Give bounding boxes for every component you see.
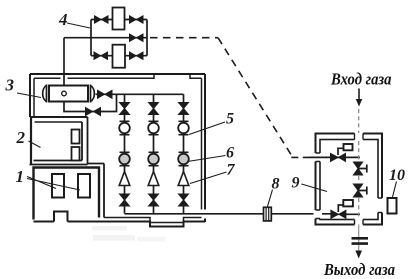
room 2 (upper-left room): top outer <box>30 116 88 118</box>
line 1: relief triangle <box>119 172 130 186</box>
valve on middle bypass line of unit 4 <box>130 34 144 41</box>
boiler rectangle 1 <box>52 174 64 198</box>
insulating joint 8 on outlet pipe <box>264 207 272 221</box>
line 2: relief triangle <box>148 172 159 186</box>
wire: middle line from vessel drop to loop <box>64 37 147 39</box>
svg-text:10: 10 <box>389 167 405 184</box>
svg-text:3: 3 <box>5 76 15 95</box>
wire: cabinet bottom-left pipe <box>331 213 360 215</box>
room 2: right wall double <box>82 117 88 165</box>
wire: cabinet top-left pipe <box>309 156 360 158</box>
valve top-right of unit 4 <box>130 16 144 23</box>
line 3: upper valve <box>179 103 189 115</box>
regulator line 3: riser <box>183 94 185 213</box>
leader line for label 3 <box>17 93 41 98</box>
leader line for label 4 <box>67 23 90 28</box>
cabinet 9: wall opening caps <box>316 134 383 225</box>
building outer wall: right inner <box>201 78 203 209</box>
filter vessel 3: right cap <box>91 85 95 103</box>
building outer wall: top outer line <box>30 73 205 75</box>
cabinet middle valve (lower) with handle <box>353 184 362 197</box>
cabinet 9: wall opening whites <box>314 132 385 227</box>
building outer wall: right outer <box>204 74 206 222</box>
valve bottom-right of unit 4 <box>130 52 144 59</box>
line 2: lower valve <box>149 194 159 206</box>
window rectangle 2 in room 2 <box>72 147 80 161</box>
cabinet bottom-left valve with actuator <box>331 210 346 218</box>
meter (top rectangle) of unit 4 <box>113 8 125 30</box>
line 2: lower flanged device (grey circle) <box>149 152 159 165</box>
line 1: lower valve <box>120 194 130 206</box>
line 1: upper flanged device (circle) <box>120 121 130 134</box>
svg-text:9: 9 <box>292 175 300 192</box>
line 3: relief triangle <box>178 172 189 186</box>
leader line from label 1 to boiler 2 <box>27 179 80 191</box>
valve top-left of unit 4 <box>95 16 109 23</box>
filter vessel 3: left cap <box>43 85 47 103</box>
regulator line 1: riser <box>124 94 126 213</box>
cabinet middle valve (upper) with handle <box>353 162 362 175</box>
partition wall right of room 1 <box>103 164 105 218</box>
window rectangle 1 in room 2 <box>72 130 80 144</box>
leader line for label 5 <box>189 122 225 135</box>
room 1 (boiler room): outline <box>34 168 100 220</box>
line 1: lower flanged device (grey circle) <box>120 152 130 165</box>
filter vessel 3: body <box>49 86 88 102</box>
leader line for label 10 <box>393 182 397 198</box>
line 3: upper flanged device (circle) <box>179 121 189 134</box>
dashed impulse line diagonal <box>218 38 291 155</box>
building bottom wall inner line <box>104 218 202 223</box>
wire: bottom branch line <box>91 55 147 57</box>
metering unit 4: loop right vertical <box>146 20 148 56</box>
gas inlet arrow <box>358 89 360 100</box>
metering unit 4: loop left vertical <box>90 20 92 56</box>
line 3: lower flanged device (grey circle) <box>179 152 189 165</box>
leader line for label 9 <box>302 184 328 192</box>
filter vessel 3: small circle port <box>62 91 67 96</box>
building bottom wall outer line <box>34 212 206 227</box>
device 10 rectangle <box>388 198 397 214</box>
wire: vessel bottom bypass <box>64 94 117 111</box>
building outer wall: left inner line <box>33 78 35 117</box>
svg-text:1: 1 <box>16 167 25 186</box>
partition corner above room 1 <box>88 163 105 165</box>
boiler rectangle 2 <box>78 174 90 198</box>
cabinet 9: inner wall rectangle <box>320 140 378 220</box>
room 2: bottom double <box>30 161 88 165</box>
valve at vessel outlet <box>98 90 113 98</box>
column elements for three regulator lines <box>119 103 327 221</box>
scan watermark smudges <box>92 226 127 231</box>
wire: vessel outlet to header <box>96 93 184 95</box>
svg-text:Выход газа: Выход газа <box>323 260 395 279</box>
leader line from label 1 to boiler 1 <box>27 177 56 189</box>
dashed impulse line into cabinet <box>291 156 309 158</box>
insulating flange bars below cabinet <box>352 238 369 243</box>
leader line for label 6 <box>188 156 226 162</box>
vent line below cabinet <box>358 225 360 252</box>
cabinet top-left valve with actuator <box>331 153 346 161</box>
leader line for label 8 <box>268 190 273 207</box>
meter (bottom rectangle) of unit 4 <box>113 45 126 68</box>
bottom header pipe to outlet <box>125 213 332 215</box>
leader line for label 2 <box>29 141 41 148</box>
svg-text:6: 6 <box>226 145 234 162</box>
line 1: upper valve <box>120 103 130 115</box>
cabinet 9: outer wall rectangle <box>316 134 383 225</box>
wire: drop from unit 4 to vessel <box>63 38 65 86</box>
line 2: upper valve <box>149 103 159 115</box>
wire: top branch line <box>91 19 147 21</box>
dashed centre line through cabinet <box>358 109 360 219</box>
svg-text:5: 5 <box>226 111 234 128</box>
regulator line 2: riser <box>153 94 155 213</box>
line 3: lower valve <box>179 194 189 206</box>
leader line for label 7 <box>190 172 227 184</box>
valve bottom-left of unit 4 <box>94 52 108 59</box>
room 2: left wall <box>30 117 32 165</box>
svg-text:4: 4 <box>58 10 68 29</box>
svg-text:Вход газа: Вход газа <box>330 70 391 89</box>
gas outlet arrowhead <box>355 251 362 259</box>
svg-text:7: 7 <box>227 162 236 179</box>
building outer wall: top inner line with opening <box>34 74 202 78</box>
valve on bypass line <box>86 108 101 116</box>
line 2: upper flanged device (circle) <box>149 121 159 134</box>
room 2: top inner <box>35 121 83 123</box>
dashed impulse line from unit 4 to the right <box>150 37 218 39</box>
svg-text:2: 2 <box>16 128 26 147</box>
building outer wall: left <box>29 74 31 117</box>
